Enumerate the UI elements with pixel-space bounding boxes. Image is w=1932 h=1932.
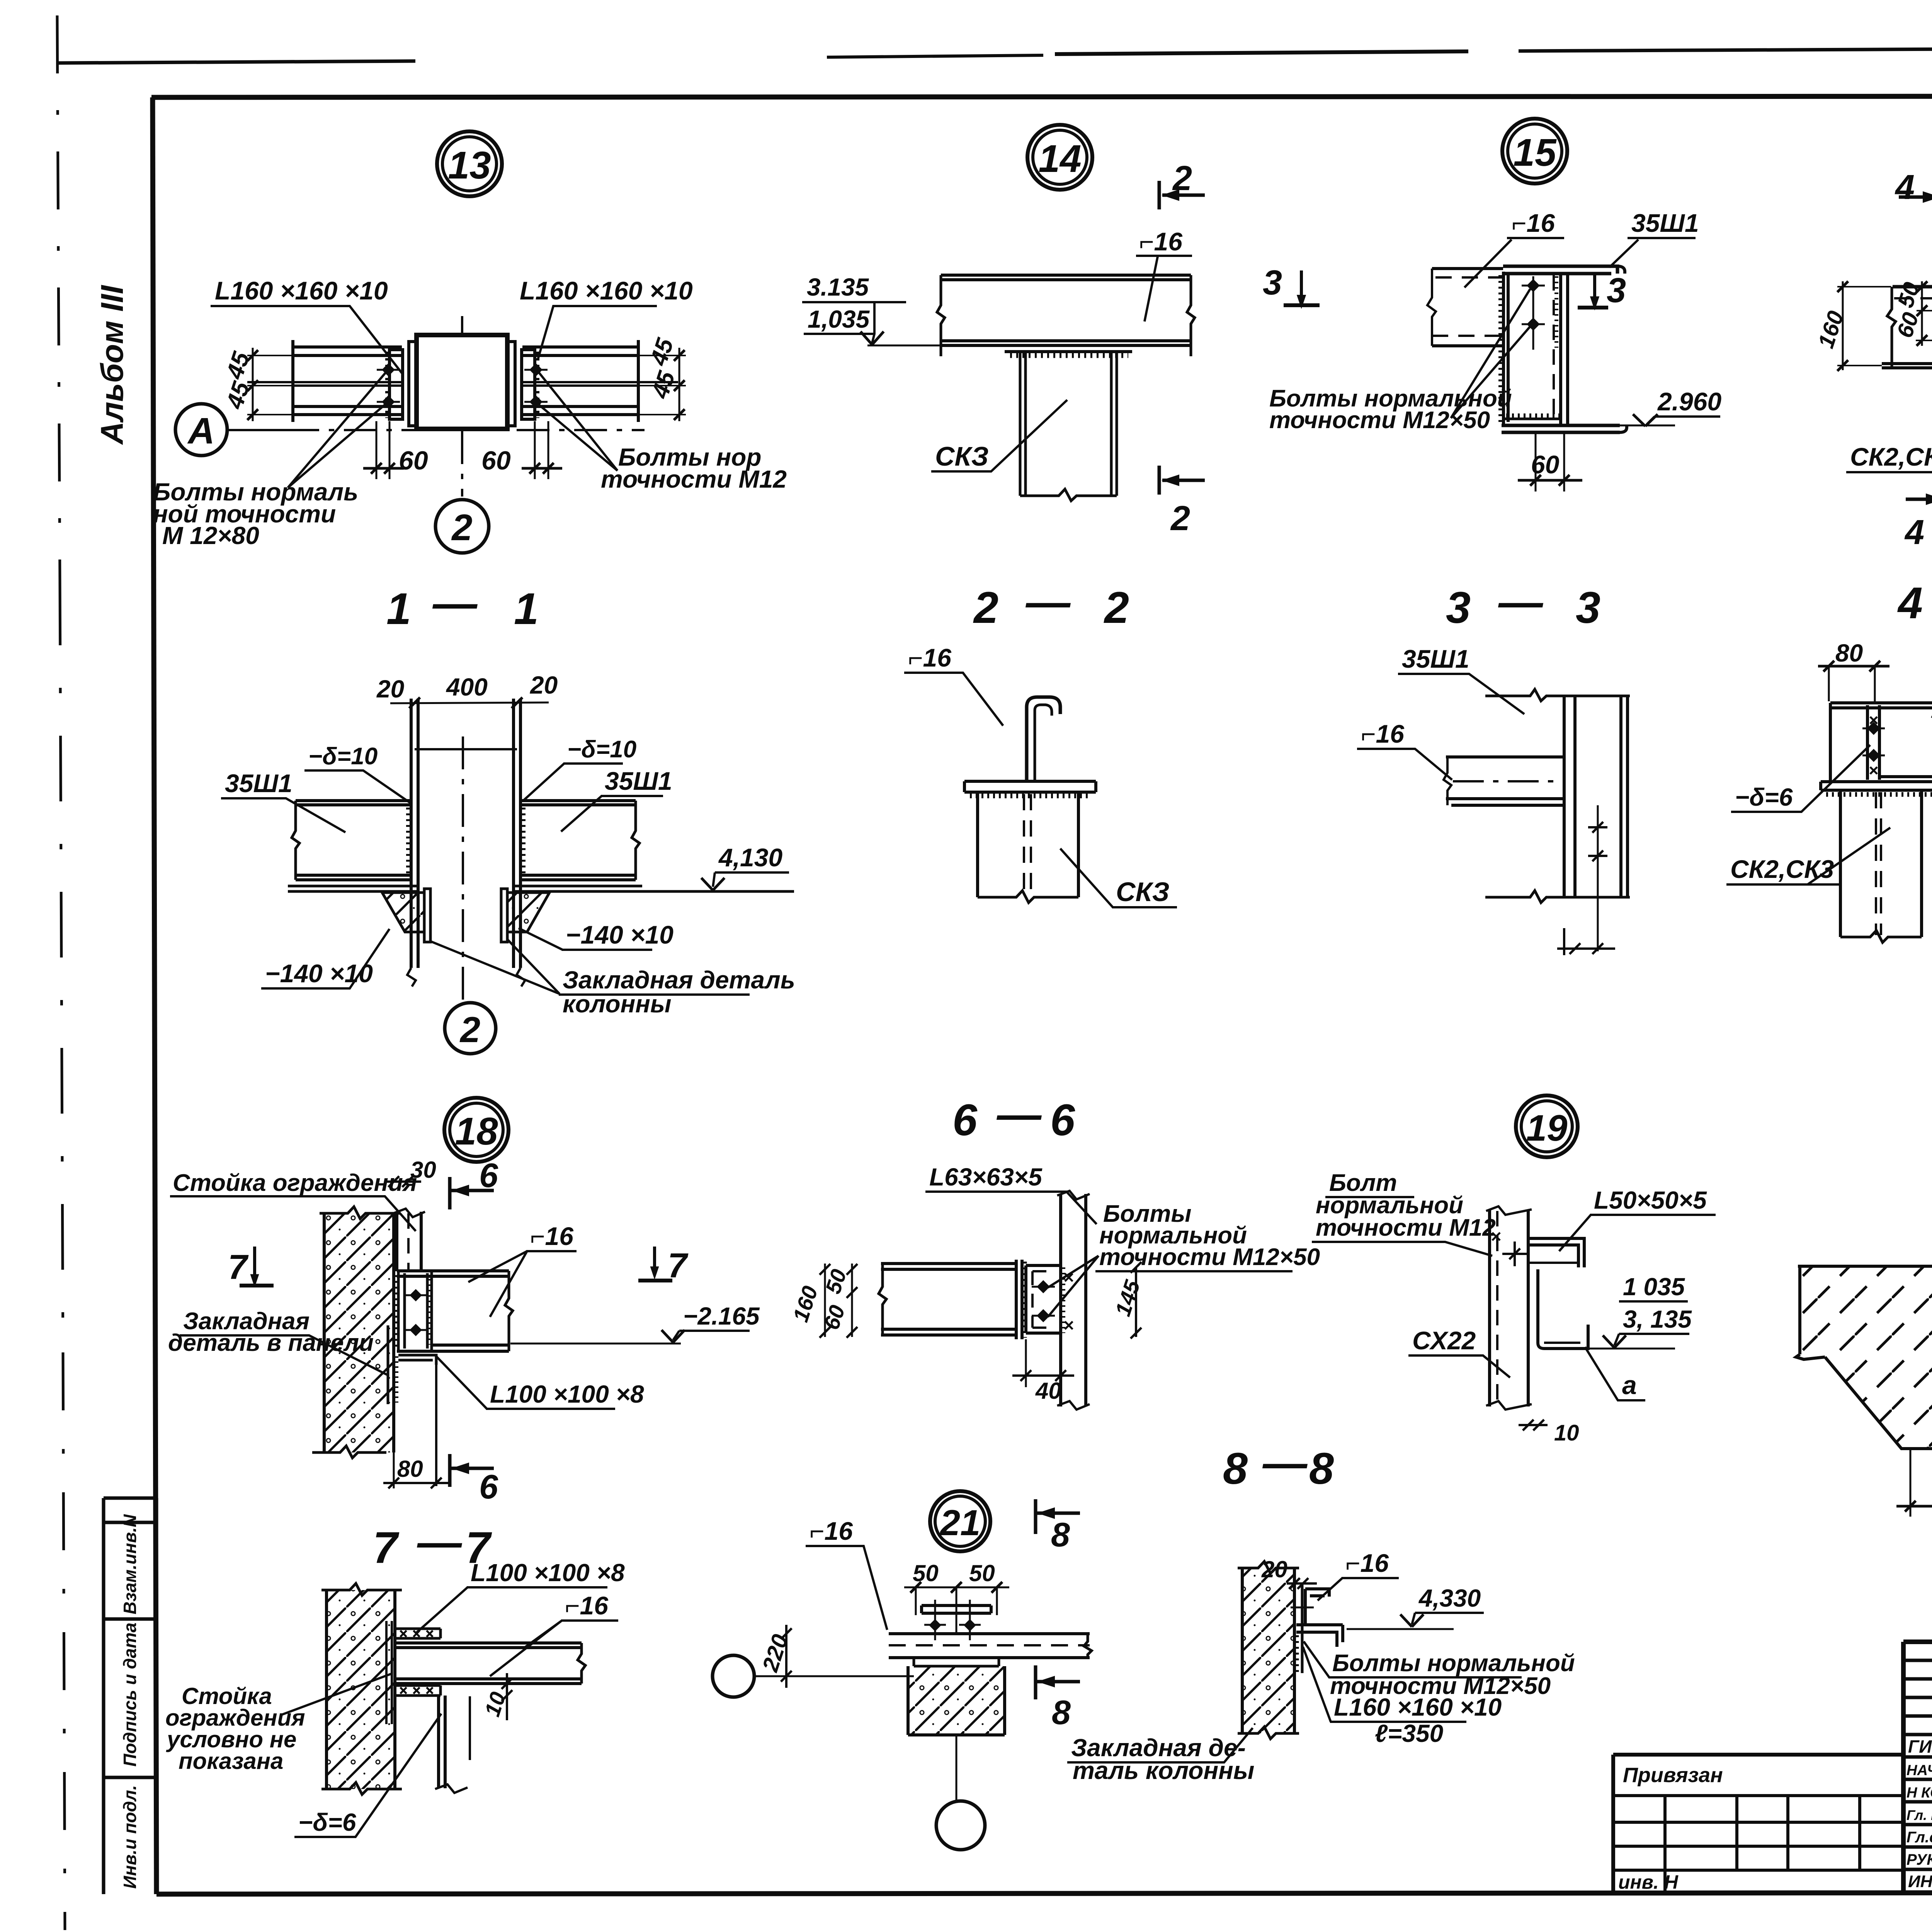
svg-text:6: 6 [1050,1095,1075,1145]
beam bottom lines [395,1679,582,1684]
column [1020,352,1117,496]
bolts left [377,370,400,402]
svg-text:60: 60 [481,446,511,475]
svg-text:1,035: 1,035 [808,305,870,333]
dim 45 left [252,348,254,421]
svg-text:СКЗ: СКЗ [935,441,989,471]
bracket channel c16 beam [397,1271,509,1351]
svg-text:20: 20 [530,671,558,699]
node circle 2 [936,1801,985,1850]
top edge line [1485,689,1630,701]
embed plates [424,889,430,942]
bottom support lines [288,886,794,891]
svg-text:показана: показана [179,1748,283,1774]
channel a [1538,1269,1588,1349]
dim 10 bottom [1519,1420,1548,1430]
vertical web lines [1564,696,1628,897]
cap plate [1821,782,1932,790]
svg-text:50: 50 [913,1560,939,1586]
right beam [520,801,636,880]
column [1840,790,1922,937]
svg-text:1: 1 [514,584,539,634]
detail 18 circle [444,1098,509,1162]
node 2 circle bottom [435,500,489,553]
svg-text:Инв.и подл.: Инв.и подл. [120,1785,140,1889]
svg-text:Подпись и дата: Подпись и дата [120,1622,140,1767]
bolt [1291,1597,1314,1618]
column [978,792,1078,897]
svg-text:1 035: 1 035 [1623,1273,1685,1301]
svg-text:20: 20 [376,675,404,703]
bolt centerline [1597,805,1599,951]
sheet top scan line segments [58,61,415,63]
svg-text:1: 1 [386,584,411,634]
left beam outline [293,340,402,422]
section mark 6 top [448,1177,452,1209]
svg-text:2: 2 [973,583,998,633]
column right flange plate [507,342,515,426]
signature table rows upper [1903,1660,1932,1735]
node 2 circle [445,1003,496,1054]
svg-text:—: — [1025,577,1071,627]
svg-text:2: 2 [1170,499,1190,538]
svg-text:80: 80 [1835,639,1863,667]
left beam [1893,287,1932,294]
svg-text:таль колонны: таль колонны [1073,1757,1254,1784]
left dims 160 50 60 [1837,287,1932,366]
beam body [941,275,1191,345]
svg-text:L50×50×5: L50×50×5 [1594,1186,1707,1214]
column plates [411,699,520,968]
svg-text:−δ=10: −δ=10 [567,736,636,763]
svg-text:⌐16: ⌐16 [530,1222,574,1250]
svg-text:2: 2 [451,507,472,548]
beam box [1830,703,1932,782]
svg-text:СК2,СК3: СК2,СК3 [1850,442,1932,471]
column body [417,335,507,429]
dim 220 [781,1625,792,1688]
dim 145 right [1131,1262,1141,1338]
svg-text:Гл.спеч.: Гл.спеч. [1906,1829,1932,1846]
wall panel [327,1590,395,1789]
svg-text:ИНЖ.: ИНЖ. [1908,1872,1932,1891]
detail 14 circle [1027,125,1092,190]
svg-text:6: 6 [479,1156,498,1194]
section mark 8 bottom [1034,1665,1037,1699]
svg-text:—: — [1498,577,1544,627]
ground hatched body [1800,1266,1932,1449]
svg-text:точности М12: точности М12 [601,465,787,493]
L160 angle [1296,1625,1343,1647]
svg-text:⌐16: ⌐16 [810,1517,853,1545]
svg-text:Гл. КОНСТ.: Гл. КОНСТ. [1906,1807,1932,1823]
svg-text:14: 14 [1038,137,1081,180]
svg-text:60: 60 [399,446,428,475]
centerline [462,736,464,1003]
svg-text:М 12×80: М 12×80 [162,522,259,549]
svg-text:2.960: 2.960 [1657,387,1721,416]
svg-text:8: 8 [1052,1693,1071,1731]
embedded plate lower [388,1325,394,1404]
svg-text:СК2,СК3: СК2,СК3 [1730,855,1834,883]
svg-text:19: 19 [1526,1107,1568,1149]
detail 13 circle [437,131,502,196]
svg-text:Взам.инв.N: Взам.инв.N [120,1514,140,1614]
svg-text:L100 ×100 ×8: L100 ×100 ×8 [490,1380,644,1408]
svg-text:L100 ×100 ×8: L100 ×100 ×8 [471,1559,625,1587]
detail 19 circle [1516,1095,1578,1157]
bolts right [524,370,548,402]
support cap plate [1005,345,1132,352]
bolts [924,1600,981,1640]
svg-text:35Ш1: 35Ш1 [1631,209,1699,237]
svg-text:6: 6 [952,1095,978,1145]
weld comb [1295,1635,1299,1674]
svg-text:6: 6 [479,1468,498,1506]
35Sh1 web [1561,274,1568,425]
svg-text:400: 400 [446,673,488,701]
dim 45 right [679,348,680,421]
C16 channel on wall [1305,1589,1329,1625]
svg-text:4,330: 4,330 [1418,1584,1481,1612]
svg-text:Стойка ограждения: Стойка ограждения [173,1170,417,1196]
border frame left [153,97,156,1894]
dim 60 bottom [1536,434,1564,492]
wall panel [1242,1568,1294,1733]
detail 21 circle [930,1491,990,1551]
svg-text:4: 4 [1897,578,1923,628]
top plate [922,1605,991,1613]
35Sh1 bottom flange [1502,425,1620,432]
svg-text:—: — [432,578,478,628]
lower angle with welds [395,1685,440,1696]
bolt cross [1502,1242,1527,1266]
cap plate [964,781,1096,792]
svg-text:а: а [1622,1371,1637,1400]
svg-text:точности М12: точности М12 [1316,1214,1496,1241]
svg-text:−δ=6: −δ=6 [298,1808,356,1836]
concrete column [908,1666,1005,1735]
svg-text:35Ш1: 35Ш1 [1402,645,1469,673]
beam plan lines [889,1634,1090,1658]
right beam mid lines [522,382,678,386]
svg-text:2: 2 [1104,583,1129,633]
svg-text:Привязан: Привязан [1623,1764,1723,1787]
left beam [296,801,411,880]
svg-text:⌐16: ⌐16 [908,643,952,672]
svg-text:⌐16: ⌐16 [1139,227,1183,256]
svg-text:8: 8 [1223,1444,1248,1493]
svg-text:⌐16: ⌐16 [1345,1549,1389,1577]
svg-text:21: 21 [939,1502,981,1543]
svg-text:30: 30 [410,1157,436,1183]
sheet left edge dash-dot [57,15,60,580]
svg-text:20: 20 [1261,1556,1287,1582]
svg-text:−140 ×10: −140 ×10 [566,920,673,949]
wall post verticals [1061,1194,1086,1406]
left beam entering [1432,269,1503,346]
channel connection box [1026,1265,1061,1333]
svg-text:−2.165: −2.165 [683,1302,760,1330]
svg-text:80: 80 [397,1456,423,1482]
C16 channel vertical [1503,272,1508,425]
right end plate [522,350,535,419]
section 6-6 cut line [435,1365,437,1486]
svg-text:—: — [417,1517,463,1567]
svg-text:35Ш1: 35Ш1 [225,769,293,798]
svg-text:40: 40 [1035,1378,1061,1404]
svg-text:СКЗ: СКЗ [1116,877,1170,907]
svg-text:15: 15 [1513,131,1557,174]
svg-text:3: 3 [1263,264,1282,302]
svg-text:−140 ×10: −140 ×10 [265,959,373,988]
detail 15 circle [1502,119,1567,184]
angle L50 [1528,1238,1584,1267]
dim 60 right [535,421,548,479]
svg-text:3: 3 [1446,583,1471,633]
svg-text:РУК. гр.: РУК. гр. [1906,1851,1932,1868]
left plate weld comb [385,352,391,418]
svg-text:СХ22: СХ22 [1412,1326,1476,1355]
svg-text:А: А [187,410,214,452]
bracket plates [398,1271,432,1351]
svg-text:7: 7 [668,1247,689,1285]
svg-text:Н КОНТР: Н КОНТР [1906,1785,1932,1801]
svg-text:L160 ×160 ×10: L160 ×160 ×10 [520,276,693,305]
beam top lines [395,1643,582,1648]
border frame bottom [156,1892,1932,1894]
svg-text:3.135: 3.135 [807,273,869,301]
svg-text:—: — [996,1090,1042,1139]
bolts [406,1295,427,1330]
foundation outline [1796,1266,1932,1449]
bottom edge line [1485,891,1630,903]
svg-text:7: 7 [228,1248,249,1287]
svg-text:8: 8 [1051,1515,1070,1554]
signature table rows lower [1903,1757,1932,1869]
dim 60 left [376,421,389,479]
C16 channel section [1027,697,1060,781]
svg-text:L160 ×160 ×10: L160 ×160 ×10 [1334,1693,1502,1721]
section mark 2 bottom [1158,466,1161,495]
end plate with bolts [1867,705,1879,780]
right plate weld comb [534,352,539,418]
section mark 3 right [1593,275,1596,298]
svg-text:ГИП: ГИП [1908,1736,1932,1757]
svg-text:4: 4 [1895,168,1915,207]
svg-text:L63×63×5: L63×63×5 [929,1163,1043,1191]
weld combs [1498,275,1503,422]
bolts [1032,1287,1055,1316]
left vertical strip cells [104,1498,156,1894]
left gusset [382,893,424,932]
svg-text:2: 2 [459,1009,480,1050]
svg-text:18: 18 [455,1110,498,1153]
svg-text:Альбом III: Альбом III [95,284,130,445]
svg-text:8: 8 [1309,1444,1334,1493]
svg-text:3: 3 [1607,271,1626,310]
svg-text:⌐16: ⌐16 [1512,209,1555,237]
svg-text:3: 3 [1576,583,1600,633]
embedded plate [1301,1583,1304,1673]
svg-text:инв. Н: инв. Н [1618,1871,1679,1893]
left dims 160 60 50 [825,1264,852,1337]
C16 channel horizontal [1446,757,1564,805]
svg-text:L160 ×160 ×10: L160 ×160 ×10 [215,276,388,305]
section mark 8 top [1034,1499,1037,1534]
svg-text:13: 13 [448,144,491,187]
guard post [397,1212,421,1271]
svg-text:4: 4 [1904,513,1924,552]
embedded plate [386,1621,392,1724]
section mark 6 bottom [448,1454,452,1487]
column centerline vertical [461,316,463,497]
ground top line [1798,1265,1932,1268]
svg-text:50: 50 [969,1560,995,1586]
privyazan table [1613,1755,1903,1892]
centerline to node circle [956,1735,957,1801]
35Sh1 top flange [1503,266,1617,274]
svg-text:⌐16: ⌐16 [565,1591,609,1620]
vertical plate [1016,1260,1022,1339]
bottom angle leg [398,1355,436,1365]
svg-text:35Ш1: 35Ш1 [605,767,672,795]
svg-text:ℓ=350: ℓ=350 [1375,1719,1443,1747]
column left flange plate [409,342,417,426]
svg-text:−δ=10: −δ=10 [308,743,378,770]
dim 200 bottom [1910,1449,1932,1517]
svg-text:⌐16: ⌐16 [1361,719,1405,748]
dim 40 bottom [1026,1339,1061,1387]
left end plate [389,350,403,419]
title block outer [1903,1642,1932,1892]
top tie line [415,748,517,750]
svg-text:—: — [1262,1438,1308,1488]
cap plate under beam [914,1658,999,1666]
node A circle [175,404,227,456]
svg-text:60: 60 [1531,450,1560,479]
left beam mid lines [247,382,402,386]
beam [881,1264,1016,1335]
dim 10 [502,1673,512,1720]
svg-text:НАЧ. АСО: НАЧ. АСО [1906,1762,1932,1779]
svg-text:−δ=6: −δ=6 [1735,783,1793,811]
post below [439,1696,445,1788]
right gusset [507,893,549,932]
bolts [1532,276,1534,350]
svg-text:3, 135: 3, 135 [1623,1305,1692,1333]
post verticals [1490,1209,1528,1406]
svg-text:точности М12×50: точности М12×50 [1099,1244,1320,1270]
right beam outline [522,340,638,422]
bottom small dim [1557,928,1615,955]
svg-text:10: 10 [1554,1420,1579,1446]
beam centerline horizontal [229,429,645,431]
top angle with welds [395,1629,440,1638]
wall panel [324,1213,394,1452]
svg-text:7: 7 [373,1523,400,1573]
section mark 7 right [653,1247,656,1268]
border frame top [151,96,1932,97]
svg-text:4,130: 4,130 [718,843,782,872]
axis circle left [713,1655,754,1697]
